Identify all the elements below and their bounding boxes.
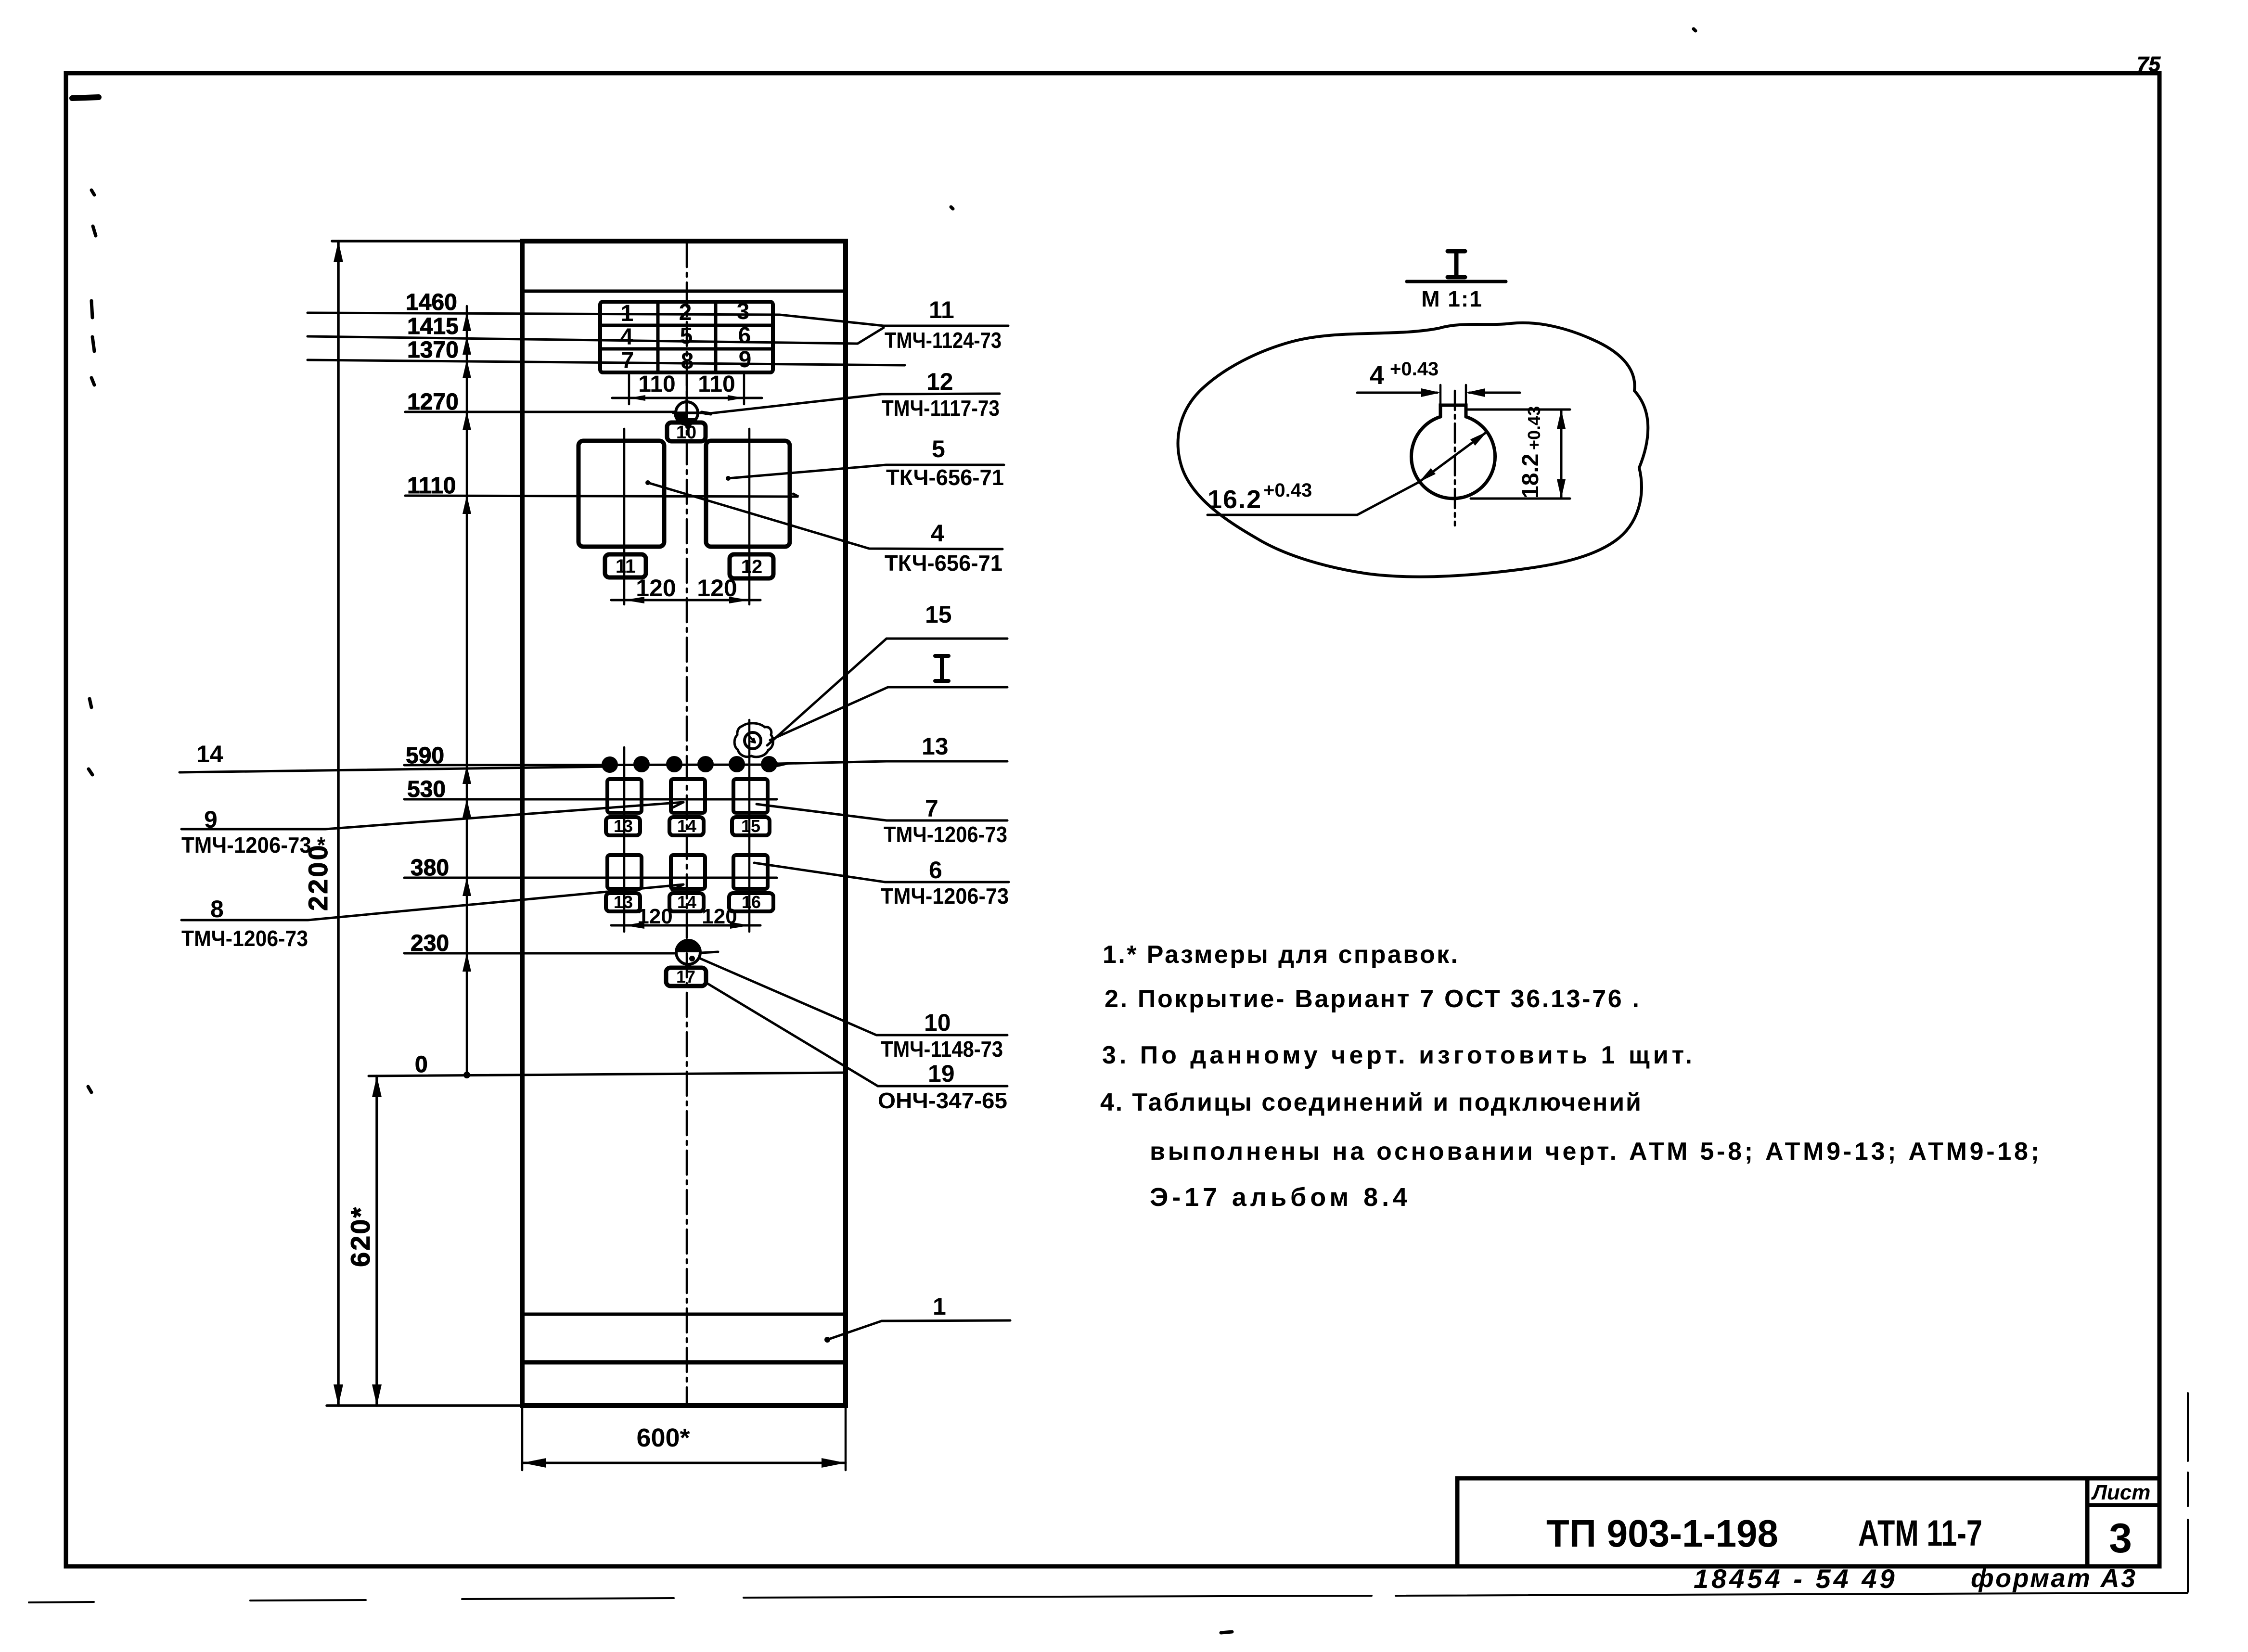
callout I leader bbox=[770, 687, 1007, 740]
small square row2 right bbox=[733, 855, 768, 889]
svg-text:+0.43: +0.43 bbox=[1524, 406, 1544, 450]
column centerline right (small squares, through detail circle) bbox=[748, 720, 751, 932]
svg-text:16.2: 16.2 bbox=[1207, 485, 1262, 514]
callout 12 label bbox=[882, 368, 1000, 421]
callout 9 label bbox=[181, 806, 325, 858]
svg-text:14: 14 bbox=[196, 741, 223, 768]
svg-text:1: 1 bbox=[933, 1293, 946, 1320]
detail I heading bbox=[0, 0, 0, 0]
margin scan marks bbox=[72, 29, 1696, 1633]
label box 13 (row2) bbox=[606, 892, 640, 912]
chain dimension line (vertical, x=970) bbox=[466, 306, 468, 1076]
svg-text:9: 9 bbox=[739, 347, 752, 372]
svg-text:13: 13 bbox=[614, 892, 633, 912]
svg-text:ТКЧ-656-71: ТКЧ-656-71 bbox=[885, 551, 1002, 576]
label box 17 bbox=[666, 967, 706, 986]
callout 7 label bbox=[884, 795, 1007, 847]
svg-text:6: 6 bbox=[929, 857, 942, 884]
level label 380 bbox=[411, 855, 449, 881]
panel vertical centerline (dash-dot) bbox=[686, 243, 688, 1404]
level label 1370 bbox=[407, 337, 459, 363]
level label 0 bbox=[415, 1052, 428, 1077]
svg-text:10: 10 bbox=[676, 423, 696, 443]
overall height dimension 2200 line bbox=[334, 241, 343, 1406]
svg-text:110: 110 bbox=[698, 371, 735, 397]
dimension 110/110 under grid bbox=[612, 371, 762, 404]
svg-text:15: 15 bbox=[925, 601, 952, 628]
level line 1270 bbox=[405, 411, 675, 413]
svg-text:2: 2 bbox=[679, 300, 692, 325]
level label 230 bbox=[411, 931, 449, 956]
lamp leader dash bbox=[702, 412, 711, 414]
detail hole centerline bbox=[1454, 391, 1456, 525]
detail I freehand outline blob bbox=[1178, 323, 1648, 577]
svg-text:620*: 620* bbox=[345, 1206, 375, 1267]
instrument square item 11 (left large) bbox=[578, 441, 664, 547]
svg-text:ТМЧ-1148-73: ТМЧ-1148-73 bbox=[881, 1037, 1003, 1062]
svg-text:7: 7 bbox=[621, 348, 634, 373]
callout 13 label bbox=[922, 733, 949, 760]
svg-text:10: 10 bbox=[924, 1009, 951, 1036]
title block frame bbox=[1457, 1478, 2159, 1566]
level label 1110 bbox=[407, 473, 456, 499]
column centerline left (large squares) bbox=[623, 429, 626, 604]
dimension 4+0.43 (keyway width) bbox=[1357, 359, 1520, 404]
svg-text:4: 4 bbox=[1370, 361, 1384, 390]
svg-text:ТМЧ-1206-73: ТМЧ-1206-73 bbox=[181, 926, 308, 951]
small square row2 left bbox=[607, 855, 642, 889]
level line 230 bbox=[404, 952, 718, 953]
svg-text:выполнены на основании черт: выполнены на основании черт. АТМ 5-8; АТ… bbox=[1150, 1138, 2040, 1165]
callout 1 leader bbox=[824, 1320, 1010, 1343]
svg-text:ТМЧ-1206-73 *: ТМЧ-1206-73 * bbox=[181, 832, 325, 858]
panel front view outline bbox=[522, 241, 846, 1406]
svg-text:18.2: 18.2 bbox=[1518, 454, 1543, 499]
small square row1 left bbox=[607, 779, 642, 813]
small square row1 right bbox=[733, 779, 768, 813]
label box 12 bbox=[730, 554, 773, 578]
level line 1460 / callout 11 leader bbox=[308, 313, 1008, 326]
callout 8 label bbox=[181, 896, 308, 951]
detail I heading underline bbox=[1407, 251, 1506, 282]
svg-text:3: 3 bbox=[2109, 1515, 2132, 1562]
svg-text:АТМ 11-7: АТМ 11-7 bbox=[1858, 1513, 1982, 1554]
level label 1270 bbox=[407, 389, 459, 415]
svg-text:ОНЧ-347-65: ОНЧ-347-65 bbox=[878, 1088, 1007, 1113]
callout 19 label bbox=[878, 1060, 1007, 1113]
dimension text 620* (rotated) bbox=[345, 1206, 375, 1267]
svg-text:16: 16 bbox=[742, 892, 761, 912]
indicator symbol (item 10, half-filled circle) bbox=[676, 940, 700, 964]
callout 8 leader bbox=[181, 884, 683, 920]
svg-text:12: 12 bbox=[741, 556, 763, 577]
svg-text:1: 1 bbox=[621, 301, 634, 326]
svg-text:120: 120 bbox=[636, 575, 676, 602]
callout 6 leader bbox=[754, 863, 1009, 882]
svg-text:120: 120 bbox=[697, 575, 737, 602]
label box 11 bbox=[605, 554, 646, 577]
svg-text:+0.43: +0.43 bbox=[1390, 359, 1439, 380]
grid cell numbers 1-9 bbox=[620, 299, 752, 374]
level line 0 bbox=[369, 1073, 845, 1076]
callout 14 label bbox=[196, 741, 223, 768]
svg-text:2. Покрытие- Вариант 7 ОСТ: 2. Покрытие- Вариант 7 ОСТ 36.13-76 . bbox=[1105, 985, 1640, 1013]
svg-text:17: 17 bbox=[676, 967, 695, 986]
svg-text:3: 3 bbox=[737, 299, 750, 324]
dimension 120/120 under small squares bbox=[611, 905, 760, 929]
bottom extension line of panel (left) bbox=[327, 1404, 522, 1407]
callout 15 leader bbox=[767, 639, 1007, 745]
svg-text:1370: 1370 bbox=[407, 337, 459, 363]
level line 590 bbox=[404, 760, 788, 769]
svg-text:ТКЧ-656-71: ТКЧ-656-71 bbox=[886, 465, 1004, 490]
svg-text:1460: 1460 bbox=[406, 290, 457, 315]
svg-text:18454 - 54 49: 18454 - 54 49 bbox=[1694, 1563, 1898, 1594]
sheet bottom dashed trim line bbox=[29, 1393, 2188, 1602]
svg-text:7: 7 bbox=[925, 795, 938, 822]
level line 1415 with jog to callout 11 label bbox=[308, 328, 884, 344]
dimension 16.2+0.43 (hole diameter) bbox=[1207, 432, 1487, 515]
small square row2 middle bbox=[671, 855, 705, 889]
column centerline left (small squares) bbox=[623, 747, 626, 932]
label box 15 (row1) bbox=[732, 816, 770, 836]
callout 19 leader bbox=[706, 983, 1007, 1086]
svg-text:ТМЧ-1206-73: ТМЧ-1206-73 bbox=[884, 822, 1007, 847]
svg-text:ТП 903-1-198: ТП 903-1-198 bbox=[1546, 1512, 1778, 1555]
callout I label bbox=[935, 656, 949, 681]
level line 1370 bbox=[308, 360, 905, 365]
svg-text:8: 8 bbox=[681, 348, 694, 374]
title block document number bbox=[1546, 1512, 1982, 1555]
svg-text:11: 11 bbox=[616, 556, 636, 577]
callout 7 leader bbox=[757, 804, 1007, 820]
svg-text:5: 5 bbox=[932, 435, 945, 462]
callout 11 label bbox=[885, 296, 1002, 353]
svg-text:110: 110 bbox=[638, 371, 675, 397]
svg-text:13: 13 bbox=[614, 816, 633, 836]
dimension 600* under panel bbox=[522, 1406, 846, 1470]
label box 13 (row1) bbox=[606, 816, 640, 836]
svg-text:13: 13 bbox=[922, 733, 949, 760]
svg-text:ТМЧ-1206-73: ТМЧ-1206-73 bbox=[881, 884, 1009, 909]
svg-text:19: 19 bbox=[928, 1060, 955, 1087]
svg-text:14: 14 bbox=[677, 892, 696, 912]
callout 15 label bbox=[925, 601, 952, 628]
svg-text:Лист: Лист bbox=[2091, 1481, 2151, 1504]
column centerline right (large squares) bbox=[748, 429, 751, 604]
callout 5 label bbox=[886, 435, 1004, 490]
detail I scale label М 1:1 bbox=[1421, 286, 1483, 311]
dimension 18.2+0.43 (hole height) bbox=[1468, 406, 1570, 499]
svg-text:8: 8 bbox=[210, 896, 224, 922]
apparatus grid 3x3 (items 1-9) bbox=[600, 302, 773, 372]
label box 14 (row2) bbox=[669, 892, 704, 912]
notes line 6 bbox=[1150, 1183, 1408, 1212]
svg-text:4: 4 bbox=[931, 520, 944, 547]
level line 530 bbox=[404, 798, 777, 801]
svg-text:12: 12 bbox=[926, 368, 953, 395]
dimension 120/120 under large squares bbox=[611, 575, 760, 603]
svg-text:4: 4 bbox=[620, 324, 633, 350]
svg-text:Э-17 альбом 8.4: Э-17 альбом 8.4 bbox=[1150, 1183, 1408, 1212]
sheet number 75 (top right, handwritten) bbox=[2137, 52, 2160, 76]
svg-text:3. По данному черт. изготови: 3. По данному черт. изготовить 1 щит. bbox=[1102, 1041, 1693, 1069]
svg-text:120: 120 bbox=[637, 905, 672, 928]
notes line 2 bbox=[1105, 985, 1640, 1013]
callout 14 leader line (left) bbox=[180, 767, 610, 772]
callout 6 label bbox=[881, 857, 1009, 909]
level line 380 bbox=[404, 877, 777, 879]
label box 16 (row2) bbox=[729, 892, 773, 912]
svg-text:9: 9 bbox=[204, 806, 218, 833]
svg-text:+0.43: +0.43 bbox=[1263, 480, 1312, 501]
top extension line of panel (left) bbox=[332, 240, 522, 243]
chain dimension arrowheads bbox=[462, 312, 471, 1078]
row of six fastener circles (590 level) bbox=[602, 756, 777, 773]
svg-text:1415: 1415 bbox=[407, 314, 459, 339]
level line 1110 bbox=[405, 494, 798, 497]
callout 10 leader bbox=[699, 958, 1007, 1035]
callout 12 leader from lamp bbox=[706, 394, 1000, 414]
callout 9 leader bbox=[181, 802, 683, 829]
detail I marker: item 15 circle with freehand loop bbox=[734, 723, 773, 757]
svg-text:120: 120 bbox=[702, 905, 737, 928]
svg-text:75: 75 bbox=[2137, 52, 2160, 76]
callout 10 label bbox=[881, 1009, 1003, 1062]
svg-text:М 1:1: М 1:1 bbox=[1421, 286, 1483, 311]
signal lamp symbol (item 12) bbox=[673, 399, 700, 430]
svg-text:0: 0 bbox=[415, 1052, 428, 1077]
instrument square item 12 (right large) bbox=[706, 441, 790, 547]
callout 5 leader bbox=[726, 465, 1004, 481]
svg-text:600*: 600* bbox=[636, 1423, 690, 1452]
svg-text:ТМЧ-1124-73: ТМЧ-1124-73 bbox=[885, 328, 1002, 353]
notes line 3 bbox=[1102, 1041, 1693, 1069]
svg-text:формат А3: формат А3 bbox=[1971, 1564, 2135, 1593]
callout 13 leader bbox=[777, 761, 1007, 764]
level label 530 bbox=[407, 777, 446, 802]
detail hole circle with keyway bbox=[1412, 405, 1495, 499]
level label 1460 bbox=[406, 290, 457, 315]
lower height dimension 620* line bbox=[372, 1076, 382, 1406]
dimension text 2200 (rotated) bbox=[303, 843, 333, 911]
svg-text:5: 5 bbox=[680, 323, 693, 349]
callout 4 leader bbox=[645, 480, 1002, 549]
svg-text:ТМЧ-1117-73: ТМЧ-1117-73 bbox=[882, 396, 1000, 421]
svg-text:4. Таблицы соединений и под: 4. Таблицы соединений и подключений bbox=[1100, 1089, 1642, 1116]
notes line 4 bbox=[1100, 1089, 1642, 1116]
level label 1415 bbox=[407, 314, 459, 339]
svg-text:11: 11 bbox=[929, 296, 954, 323]
svg-text:14: 14 bbox=[677, 816, 696, 836]
svg-text:6: 6 bbox=[738, 323, 751, 348]
svg-text:15: 15 bbox=[741, 816, 760, 836]
level label 590 bbox=[406, 743, 444, 768]
notes line 1 bbox=[1103, 941, 1459, 969]
callout 1 label bbox=[933, 1293, 946, 1320]
small square row1 middle bbox=[671, 779, 705, 813]
label box 14 (row1) bbox=[669, 816, 704, 836]
stamp 18454-54 49 bbox=[1694, 1563, 1898, 1594]
label box 10 bbox=[667, 423, 706, 443]
format label bbox=[1971, 1564, 2135, 1593]
notes line 5 bbox=[1150, 1138, 2040, 1165]
svg-text:1.* Размеры для справок.: 1.* Размеры для справок. bbox=[1103, 941, 1459, 969]
callout 4 label bbox=[885, 520, 1002, 576]
title block sheet cell bbox=[2091, 1481, 2151, 1562]
